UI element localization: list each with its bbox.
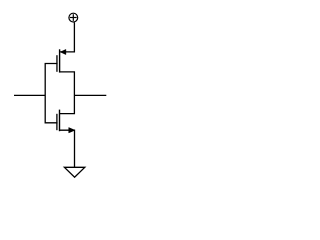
wire input bbox=[14, 94, 45, 96]
Q2 gate bar bbox=[56, 114, 58, 130]
wire gate bus bbox=[45, 64, 57, 123]
Q1 channel bar bbox=[59, 49, 61, 72]
ground bbox=[64, 167, 84, 177]
wire VDD stem bbox=[60, 22, 74, 52]
wire source to ground bbox=[60, 130, 75, 167]
transistor Q1 PMOS bbox=[57, 49, 66, 72]
power supply terminal V+ bbox=[69, 13, 78, 22]
Q1 gate bar bbox=[56, 55, 58, 72]
wire output bbox=[74, 94, 106, 96]
Q2 source arrow bbox=[69, 128, 75, 133]
wire drain bus bbox=[60, 72, 75, 114]
Q2 channel bar bbox=[59, 110, 61, 132]
transistor Q2 NMOS bbox=[57, 110, 75, 133]
Q1 source arrow bbox=[60, 49, 66, 54]
